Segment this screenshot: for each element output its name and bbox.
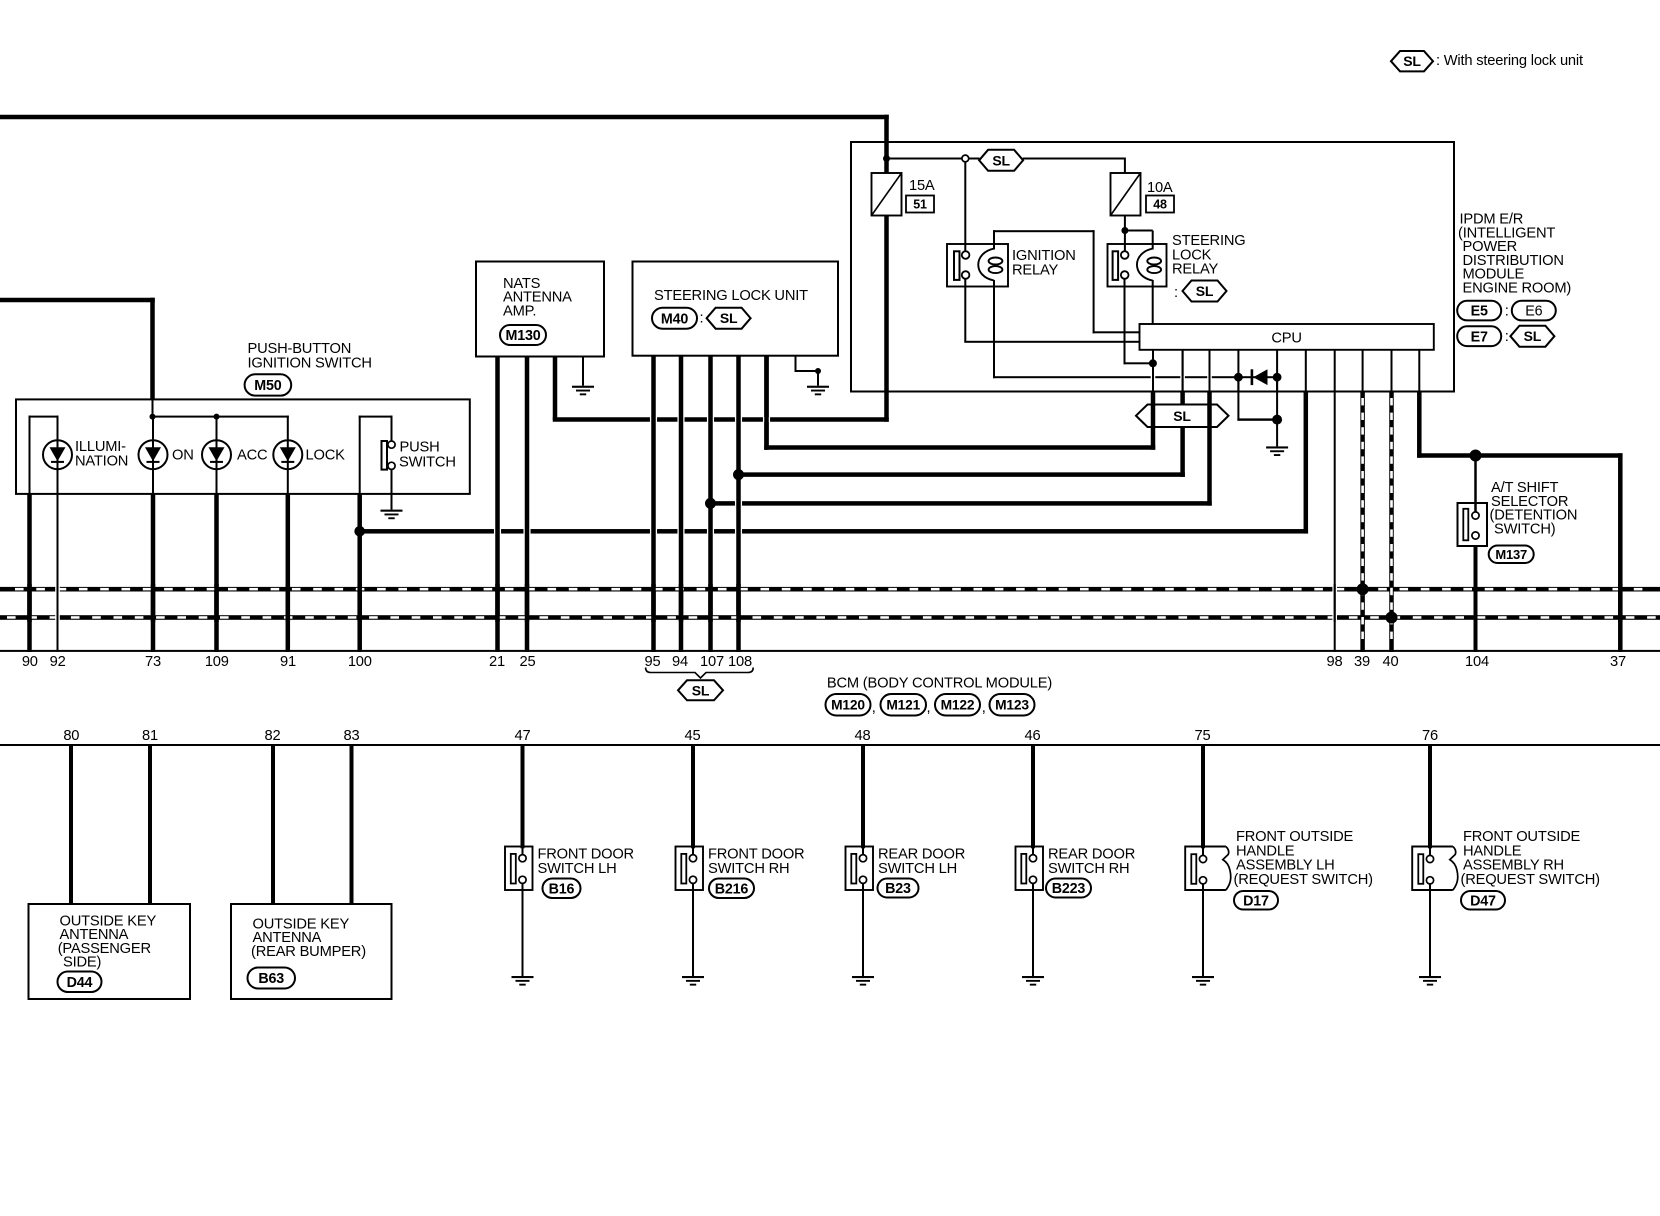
svg-text:ON: ON (172, 448, 194, 464)
wire ignition relay coil top loop to CPU (993, 230, 995, 249)
IPDM E/R box (851, 142, 1454, 392)
wire terminal 47 drop (521, 745, 525, 848)
wire CPU pin 3 stub (1209, 350, 1211, 393)
wire illumination lamp top jog (57, 416, 59, 441)
wire ON lamp top lead (152, 418, 154, 441)
bus line 1 dash pattern (15, 588, 24, 591)
connector E6 (1512, 301, 1556, 321)
ground rear door switch RH (1022, 976, 1044, 978)
node junction contact-to-CPU pin (1149, 359, 1157, 367)
rear door switch RH symbol (1016, 847, 1044, 891)
svg-text:B216: B216 (715, 881, 749, 897)
connector M123 (990, 694, 1035, 716)
bus line 2 (row of dashes) (0, 615, 1660, 620)
front outside handle assembly LH (request switch) symbol (1185, 847, 1226, 891)
svg-text:SWITCH: SWITCH (399, 455, 456, 471)
wire CPU pin 4 stub (1237, 350, 1239, 393)
svg-text:B63: B63 (258, 971, 284, 987)
indicator illumination lamp (43, 440, 72, 469)
svg-text:ILLUMI-: ILLUMI- (75, 439, 126, 455)
svg-text:E5: E5 (1471, 304, 1488, 320)
fuse rating box 51 (906, 196, 934, 213)
svg-text:40: 40 (1383, 654, 1399, 670)
connector D47 (1461, 891, 1505, 910)
front door switch RH symbol (676, 847, 704, 891)
wire CPU pin 10 stub (1418, 350, 1420, 393)
svg-text:M50: M50 (254, 378, 281, 394)
wire ACC lamp top lead (216, 418, 218, 441)
svg-text:21: 21 (489, 654, 505, 670)
svg-text:STEERING LOCK UNIT: STEERING LOCK UNIT (654, 288, 808, 304)
svg-text:CPU: CPU (1271, 331, 1301, 347)
svg-text:LOCK: LOCK (306, 448, 346, 464)
wire ON lamp cathode lead (152, 469, 154, 494)
ground push switch ground (381, 510, 403, 512)
connector E7 (1457, 326, 1501, 346)
svg-text:RELAY: RELAY (1172, 262, 1218, 278)
svg-text:M123: M123 (995, 698, 1029, 713)
svg-text:25: 25 (520, 654, 536, 670)
svg-text:107: 107 (700, 654, 724, 670)
svg-text:,: , (927, 700, 931, 716)
svg-text:RELAY: RELAY (1012, 262, 1058, 278)
front door switch LH symbol (505, 847, 533, 891)
svg-text:SWITCH RH: SWITCH RH (708, 861, 789, 877)
wire LOCK lamp top lead (287, 416, 289, 441)
svg-text:SL: SL (992, 152, 1010, 168)
svg-text:91: 91 (280, 654, 296, 670)
wire terminal 46 drop (1031, 745, 1035, 848)
svg-text:76: 76 (1422, 728, 1438, 744)
node ground jog junction (1272, 415, 1282, 425)
connector M40 (652, 308, 697, 329)
outside key antenna (rear bumper) box (231, 904, 392, 999)
wire steering lock relay contact output (1124, 278, 1126, 364)
wire horizontal run y=455.5 to terminal 37 (1417, 453, 1623, 458)
wire terminal 75 drop (1201, 745, 1205, 848)
CPU box (1140, 324, 1434, 350)
svg-text:104: 104 (1465, 654, 1489, 670)
wire terminal 83 drop (350, 745, 354, 904)
wire CPU ground line (1276, 377, 1278, 446)
wire 10A output branch to relay coil (1125, 230, 1153, 232)
wire CPU pin 3 stub (over gap) (1209, 350, 1211, 393)
wire horizontal run y=531.3 to push switch (357, 529, 1308, 534)
ignition relay coil (978, 249, 994, 281)
svg-text:46: 46 (1025, 728, 1041, 744)
wire CPU pin 7 stub (1334, 350, 1336, 393)
svg-text:75: 75 (1195, 728, 1211, 744)
wire 10A fuse output (1124, 216, 1126, 233)
connector open circle on 10A branch (962, 155, 969, 162)
svg-text:98: 98 (1327, 654, 1343, 670)
svg-text:(REQUEST SWITCH): (REQUEST SWITCH) (1461, 872, 1600, 888)
ground request switch RH (1419, 976, 1441, 978)
wire ACC lamp cathode lead (216, 469, 218, 494)
svg-text:B16: B16 (549, 881, 575, 897)
outside key antenna (passenger side) box (29, 904, 191, 999)
wire terminal 81 drop (148, 745, 152, 904)
wire battery feed drop to 15A fuse (884, 115, 889, 173)
wire pin 91 drop (286, 494, 291, 652)
ground front door switch RH (682, 976, 704, 978)
ground steering lock unit ground (807, 386, 829, 388)
wire segments over bus lines (27, 584, 32, 622)
wire IPDM pin 9 (dashed) drop to terminal 40 (1389, 392, 1394, 652)
A/T detention switch contact (1463, 509, 1468, 541)
node bus junction terminal 39 (1357, 583, 1369, 595)
connector D44 (58, 972, 102, 993)
svg-text:94: 94 (672, 654, 688, 670)
svg-text:SL: SL (1173, 408, 1191, 424)
svg-text:ENGINE ROOM): ENGINE ROOM) (1463, 281, 1572, 297)
bus line 1 (row of dashes) (0, 587, 1660, 592)
svg-text:SL: SL (1524, 328, 1542, 344)
wire steering lock relay coil to CPU top (1152, 280, 1154, 324)
svg-text:37: 37 (1610, 654, 1626, 670)
wire BCM connector row line (0, 650, 1660, 652)
ground NATS amp ground (572, 386, 594, 388)
wire steering lock unit pin 95 drop (651, 356, 656, 652)
wire crossing gaps (no-connection crossings) (650, 417, 657, 422)
wire CPU pin 6 stub (1305, 350, 1307, 393)
node A/T shift selector tap (1470, 450, 1482, 462)
svg-text:M40: M40 (661, 311, 688, 327)
dash pattern terminal 40 line (1390, 398, 1393, 405)
svg-text:109: 109 (205, 654, 229, 670)
ground front door switch LH (512, 976, 534, 978)
wire steering lock unit pin 107 drop (708, 356, 713, 652)
svg-text:51: 51 (913, 198, 927, 212)
wire steering lock unit pin 94 drop (679, 356, 684, 652)
connector B23 (878, 879, 919, 898)
wire steering lock unit pin 108 drop (736, 356, 741, 652)
svg-text:SWITCH LH: SWITCH LH (538, 861, 617, 877)
wire CPU pin 5 stub (1276, 350, 1278, 393)
connector B63 (248, 968, 296, 989)
dash pattern terminal 39 line (1361, 398, 1364, 405)
connector B16 (543, 879, 581, 899)
wire branch to 10A fuse (left segment) (887, 158, 963, 160)
push-button ignition switch box M50 (16, 399, 470, 494)
svg-text:83: 83 (344, 728, 360, 744)
svg-text:NATION: NATION (75, 454, 128, 470)
connector M122 (935, 694, 980, 716)
wire NATS amp supply drop (553, 357, 558, 420)
steering lock relay contact (1113, 251, 1119, 280)
wire LOCK lamp cathode lead (287, 469, 289, 494)
node steering lock ground junction (815, 368, 821, 374)
svg-text:M120: M120 (831, 698, 865, 713)
A/T shift selector (detention switch) box (1458, 503, 1488, 546)
wire 10A output to relay contact (1124, 231, 1126, 252)
relay box (ignition relay) (947, 244, 1008, 287)
svg-text:M137: M137 (1495, 547, 1527, 562)
svg-text:10A: 10A (1147, 180, 1173, 196)
wire A/T shift selector pin 104 drop (1474, 546, 1478, 652)
option tag SL (wide, steering lock harness) (1136, 405, 1229, 428)
svg-text:15A: 15A (909, 178, 935, 194)
wire NATS amp pin 25 drop (525, 357, 530, 652)
steering lock unit box (633, 262, 839, 356)
svg-text:B23: B23 (885, 881, 911, 897)
wire IPDM pin 6 drop (1304, 392, 1309, 534)
svg-text::: : (1505, 329, 1509, 345)
NATS antenna amp box (476, 262, 604, 357)
svg-text:81: 81 (142, 728, 158, 744)
bus crossing gaps at thin wires (55, 587, 60, 592)
svg-text:M130: M130 (506, 328, 541, 344)
svg-text:AMP.: AMP. (503, 303, 536, 319)
wire pin 90 drop (27, 494, 32, 652)
wire illumination lamp cathode / pin 92 drop (57, 469, 59, 652)
rear door switch LH symbol (846, 847, 874, 891)
connector B216 (709, 879, 754, 899)
wire ignition relay contact feed (from connector circle) (964, 162, 966, 252)
steering lock relay coil (1137, 249, 1153, 281)
bracket for SL terminals (646, 668, 754, 679)
svg-text:M121: M121 (886, 698, 920, 713)
wire NATS amp ground lead (582, 357, 584, 386)
svg-text:: With steering lock unit: : With steering lock unit (1436, 53, 1583, 69)
relay box (steering lock relay) (1108, 244, 1167, 287)
wire pin 73 drop (151, 494, 156, 652)
svg-text:SWITCH LH: SWITCH LH (878, 861, 957, 877)
wire CPU pin 2 stub (1182, 350, 1184, 393)
bus line 2 dash pattern (7, 616, 16, 619)
svg-text::: : (700, 311, 704, 327)
node diode line junction left (1234, 373, 1243, 382)
wire branch to 10A fuse (mid segment) (969, 158, 980, 160)
svg-text:IGNITION SWITCH: IGNITION SWITCH (248, 355, 372, 371)
ground rear door switch LH (852, 976, 874, 978)
wire IPDM pin 2 drop (1180, 392, 1185, 477)
wire CPU pin 9 stub (1391, 350, 1393, 393)
wire terminal 80 drop (69, 745, 73, 904)
option tag SL (legend) (1391, 51, 1433, 71)
node rail junction at ACC lamp (214, 414, 220, 420)
wire 15A fuse output down (884, 215, 889, 421)
connector M121 (881, 694, 927, 716)
svg-text:82: 82 (265, 728, 281, 744)
svg-text::: : (1174, 285, 1178, 301)
svg-text:D17: D17 (1243, 893, 1269, 909)
wire terminal 45 drop (691, 745, 695, 848)
svg-text:D44: D44 (67, 975, 93, 991)
connector M130 (500, 325, 546, 345)
wire IPDM pin 3 drop (1207, 392, 1212, 506)
node junction pin107 line (705, 498, 716, 509)
wire feed into M50 box (152, 399, 154, 417)
svg-text:(REAR BUMPER): (REAR BUMPER) (251, 944, 366, 960)
wire battery feed horizontal (top) (0, 115, 889, 120)
svg-text:D47: D47 (1470, 893, 1496, 909)
svg-text:M122: M122 (941, 698, 975, 713)
wire steering lock unit pin 5 drop (over gap) (764, 356, 769, 450)
wire keyswitch feed drop (150, 298, 155, 400)
wire terminal 37 drop (1618, 453, 1623, 652)
wire push switch jog (359, 416, 393, 418)
wire keyswitch feed horizontal (0, 298, 155, 303)
svg-text:47: 47 (515, 728, 531, 744)
svg-text:SL: SL (692, 682, 710, 698)
fuse 15A (872, 173, 902, 216)
svg-text:SWITCH): SWITCH) (1494, 521, 1555, 537)
svg-text:PUSH: PUSH (400, 440, 440, 456)
svg-text:90: 90 (22, 654, 38, 670)
wire steering lock unit ground lead (795, 356, 797, 372)
wire M50 supply rail (153, 416, 289, 418)
option tag SL (connector E7) (1510, 326, 1554, 347)
svg-text:48: 48 (855, 728, 871, 744)
wire horizontal run y=503.4 (708, 501, 1212, 506)
node bus junction terminal 40 (1386, 612, 1398, 624)
node diode line junction right (1273, 373, 1282, 382)
ground CPU internal ground (1266, 446, 1288, 448)
svg-text:39: 39 (1354, 654, 1370, 670)
wire terminal 82 drop (271, 745, 275, 904)
svg-text:48: 48 (1153, 198, 1167, 212)
option tag SL (steering lock unit) (707, 308, 751, 329)
wire CPU pin drop to ground jog (1237, 378, 1239, 421)
wire CPU pin 1 stub (over gap) (1152, 350, 1154, 393)
node junction pin108 line (733, 469, 744, 480)
wire ignition relay contact output to CPU (964, 278, 966, 342)
node rail junction at ON lamp (150, 414, 156, 420)
wire branch to 10A fuse (right segment) (1023, 158, 1125, 160)
svg-text:92: 92 (50, 654, 66, 670)
svg-text:E7: E7 (1471, 329, 1488, 345)
svg-text:SL: SL (720, 310, 738, 326)
svg-text:SL: SL (1196, 283, 1214, 299)
wire pin 100 drop (357, 494, 362, 652)
svg-text:BCM (BODY CONTROL MODULE): BCM (BODY CONTROL MODULE) (827, 675, 1052, 691)
fuse rating box 48 (1146, 196, 1174, 213)
wire ignition relay coil ground side to diode (993, 280, 995, 378)
svg-text:(REQUEST SWITCH): (REQUEST SWITCH) (1234, 872, 1373, 888)
connector D17 (1234, 891, 1278, 910)
wire horizontal run y=419.5 to NATS amp (553, 417, 889, 422)
node 10A output junction (1121, 227, 1128, 234)
ignition relay contact (954, 251, 960, 280)
connector M120 (826, 694, 871, 716)
wire lower harness row line (0, 744, 1660, 746)
front outside handle assembly RH (request switch) symbol (1412, 847, 1453, 891)
svg-text:,: , (982, 700, 986, 716)
wire diode anode link (1238, 376, 1279, 378)
fuse 10A (1111, 173, 1141, 216)
wire A/T shift selector feed (1474, 456, 1477, 513)
wire IPDM pin 1 drop (steering lock power) (1151, 392, 1156, 450)
svg-text:80: 80 (63, 728, 79, 744)
connector M137 (1489, 546, 1534, 564)
wire CPU pin 8 stub (1362, 350, 1364, 393)
wire IPDM pin 8 (dashed) drop to terminal 39 (1360, 392, 1365, 652)
wire CPU pin 2 stub (over gap) (1182, 350, 1184, 393)
wire CPU pin 1 stub (1152, 350, 1154, 393)
svg-text:E6: E6 (1525, 304, 1542, 320)
wire terminal 76 drop (1428, 745, 1432, 848)
indicator ON lamp (139, 440, 168, 469)
svg-text:SIDE): SIDE) (63, 955, 101, 971)
node junction at 15A fuse feed (883, 155, 890, 162)
connector B223 (1046, 879, 1091, 898)
svg-text:B223: B223 (1052, 881, 1086, 897)
indicator LOCK lamp (273, 440, 302, 469)
svg-text:ACC: ACC (237, 448, 268, 464)
svg-text:108: 108 (728, 654, 752, 670)
svg-text::: : (1505, 304, 1509, 320)
push switch contact (382, 441, 388, 470)
option tag SL (10A branch) (979, 150, 1023, 171)
wire horizontal run y=474.6 (736, 472, 1185, 477)
diode (CPU protection) (1251, 369, 1254, 385)
wire horizontal run y=447.5 to steering lock unit (764, 445, 1155, 450)
wire terminal 48 drop (861, 745, 865, 848)
option tag SL (BCM terminals) (678, 680, 723, 700)
wire IPDM pin 10 drop (1417, 392, 1422, 458)
svg-text:,: , (872, 700, 876, 716)
wire NATS amp pin 21 drop (495, 357, 500, 652)
wire IPDM pin 7 drop to terminal 98 (1334, 392, 1336, 652)
svg-text:SWITCH RH: SWITCH RH (1048, 861, 1129, 877)
indicator ACC lamp (202, 440, 231, 469)
node push switch junction (to IPDM pin 6) (354, 526, 365, 537)
svg-text:SL: SL (1403, 53, 1421, 69)
svg-text:95: 95 (645, 654, 661, 670)
svg-text:73: 73 (145, 654, 161, 670)
ground request switch LH (1192, 976, 1214, 978)
svg-text:45: 45 (685, 728, 701, 744)
option tag SL (steering lock relay) (1183, 281, 1227, 302)
wire pin 109 drop (214, 494, 219, 652)
svg-text:100: 100 (348, 654, 372, 670)
wire push switch ground lead (391, 469, 393, 509)
wire steering lock unit pin 5 drop (764, 356, 769, 450)
connector E5 (1457, 301, 1501, 321)
connector M50 (245, 374, 292, 395)
